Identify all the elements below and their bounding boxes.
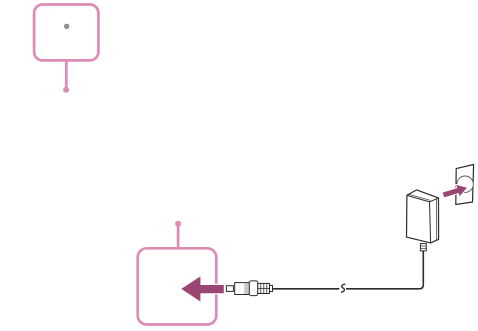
DC plug collar <box>249 281 257 296</box>
adapter DC connector nub <box>420 244 426 251</box>
AC adapter body <box>407 190 439 243</box>
leader line of callout B <box>177 224 180 247</box>
DC plug grip (ribbed) <box>258 283 273 293</box>
adapter front-top edge <box>407 195 439 243</box>
outlet socket circle <box>457 176 473 192</box>
adapter top bevel line <box>408 194 431 201</box>
leader dot of callout B <box>175 221 181 227</box>
adapter side seam line <box>436 199 438 241</box>
DC plug barrel <box>235 283 250 295</box>
indicator dot inside callout A <box>64 24 69 29</box>
arrow to AC outlet <box>442 182 469 200</box>
wall outlet plate <box>456 165 474 205</box>
callout box B (bottom, DC IN jack) <box>138 248 217 324</box>
power cable (plug to adapter) <box>272 251 424 289</box>
leader line of callout A <box>65 61 68 90</box>
DC plug barrel shaded band <box>244 283 249 294</box>
callout box A (top left, charging indicator) <box>34 5 98 61</box>
cable break symbol <box>340 284 346 292</box>
DC plug pin <box>226 286 233 292</box>
insert arrow into DC IN jack <box>181 276 224 301</box>
leader dot of callout A <box>63 87 69 93</box>
